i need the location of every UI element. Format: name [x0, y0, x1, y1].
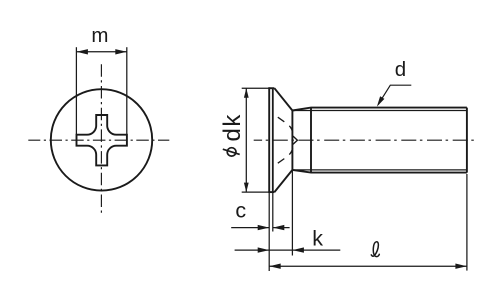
k arrow pointing right — [258, 247, 270, 252]
hidden recess wing arc top — [289, 126, 292, 133]
c arrow pointing left — [273, 225, 285, 230]
phi dk dimension line — [245, 88, 247, 192]
shank end extension line down — [466, 174, 468, 271]
hidden recess line top-left dash — [278, 117, 285, 122]
phillips cross recess — [77, 115, 127, 165]
centerline — [254, 139, 474, 141]
thread major top with runout — [292, 108, 467, 111]
phi dk extension line top — [242, 87, 270, 89]
m arrow right — [115, 49, 127, 54]
head top edge — [268, 87, 274, 89]
d leader arrowhead — [377, 96, 385, 106]
phi dk arrow up — [244, 88, 249, 98]
head band line (c edge) — [272, 88, 274, 192]
k dimension line — [235, 249, 341, 251]
thread runout boundary line — [310, 108, 312, 173]
hidden recess line bottom-left dash — [278, 159, 285, 164]
c dimension right tail — [273, 227, 290, 229]
face extension line down — [268, 193, 270, 271]
l arrow right — [455, 264, 467, 269]
thread minor diameter bottom — [292, 169, 467, 171]
hidden recess wing arc bottom — [289, 148, 292, 155]
vertical centerline — [100, 64, 102, 213]
head bottom edge — [268, 191, 274, 193]
thread major bottom with runout — [292, 170, 467, 173]
horizontal centerline — [28, 139, 169, 141]
m arrow left — [76, 49, 88, 54]
head flat face line — [268, 87, 270, 192]
svg-text:d: d — [395, 58, 406, 81]
svg-text:k: k — [312, 226, 323, 250]
phi dk arrow down — [244, 183, 249, 193]
head outline circle — [51, 89, 152, 190]
thread minor diameter top — [292, 110, 467, 112]
band extension line down — [272, 192, 274, 231]
c arrow pointing right — [258, 225, 270, 230]
l dimension line — [269, 265, 467, 267]
m dimension extension line right — [126, 47, 128, 134]
label l (script ell) — [371, 242, 379, 257]
label phi (drawn) — [227, 148, 236, 156]
head cone top — [274, 88, 292, 110]
hidden recess tip — [293, 136, 298, 144]
head/shank junction line — [291, 111, 293, 170]
d leader line — [378, 85, 411, 104]
l arrow left — [269, 264, 281, 269]
k arrow pointing left — [292, 247, 304, 252]
head cone bottom — [274, 170, 292, 192]
svg-text:m: m — [91, 24, 108, 47]
shank right end edge — [466, 108, 468, 173]
svg-text:dk: dk — [219, 113, 246, 141]
phi dk extension line bottom — [242, 191, 270, 193]
m dimension extension line left — [75, 47, 77, 134]
c dimension left tail — [231, 227, 269, 229]
svg-text:c: c — [235, 199, 246, 223]
m dimension line — [76, 51, 126, 53]
junction extension line down — [291, 170, 293, 256]
